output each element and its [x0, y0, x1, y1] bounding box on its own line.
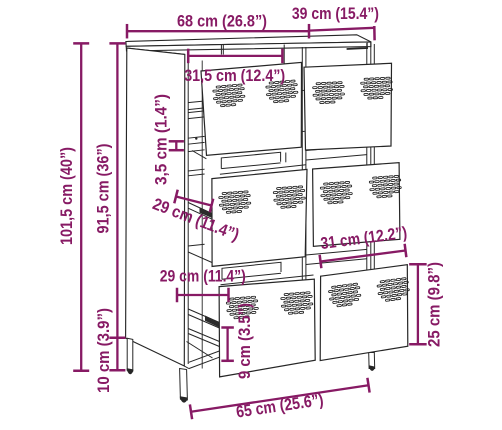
drawer D6 (bottom-right) front: [320, 265, 408, 361]
drawer slide D5 left: [188, 309, 219, 347]
dimension 29 cm drawer depth (angled): [174, 190, 213, 213]
drawer D6 (bottom-right) front left vent cluster: [328, 283, 362, 308]
drawer D2 (top-right) front right vent cluster: [361, 77, 393, 99]
svg-text:3,5 cm (1.4”): 3,5 cm (1.4”): [152, 94, 171, 185]
centre divider bridges: [302, 89, 306, 91]
drawer slide rungs D1 left: [188, 101, 206, 176]
svg-text:31,5 cm (12.4”): 31,5 cm (12.4”): [184, 66, 285, 85]
svg-text:9 cm (3.5”): 9 cm (3.5”): [235, 303, 254, 379]
centre divider: [301, 47, 303, 354]
drawer D4 (middle-right) front left vent cluster: [320, 181, 353, 204]
dimension 31 cm right drawer width: [320, 244, 407, 268]
dimension 91.5 cm body height: [109, 43, 125, 337]
left drawer runner verticals: [201, 61, 203, 369]
dimension 25 cm drawer height: [409, 264, 427, 344]
dimension 39 cm top depth: [309, 26, 375, 40]
drawer D5 (bottom-left) front: [219, 279, 315, 377]
dimension 3.5 cm gap: [169, 141, 184, 150]
front-right leg: [369, 353, 375, 369]
drawer D3 (middle-left) front right vent cluster: [273, 186, 306, 209]
svg-text:68 cm (26.8”): 68 cm (26.8”): [177, 12, 267, 31]
front-left leg: [180, 369, 188, 401]
rail between row2 and row3 left: [221, 262, 314, 285]
dimension 101.5 cm total height: [73, 43, 89, 370]
drawer D1 (top-left) front right vent cluster: [266, 80, 299, 104]
svg-text:101,5 cm (40”): 101,5 cm (40”): [57, 147, 76, 245]
drawer D1 (top-left) front: [201, 62, 302, 155]
drawer D5 (bottom-left) front left vent cluster: [226, 296, 259, 319]
under-top rail marks: [221, 45, 284, 64]
drawer D4 (middle-right) front right vent cluster: [369, 175, 402, 198]
drawer D2 (top-right) front left vent cluster: [313, 82, 345, 104]
cabinet top panel: [126, 35, 371, 51]
drawer D4 (middle-right) front: [313, 163, 400, 247]
svg-text:10 cm (3.9”): 10 cm (3.9”): [94, 308, 113, 393]
dimension 65 cm bottom width: [190, 378, 370, 419]
svg-text:91,5 cm (36”): 91,5 cm (36”): [94, 144, 113, 234]
drawer D2 (top-right) front: [304, 63, 392, 150]
drawer D5 (bottom-left) front right vent cluster: [281, 292, 314, 315]
svg-text:39 cm (15.4”): 39 cm (15.4”): [292, 4, 379, 23]
svg-text:29 cm (11.4”): 29 cm (11.4”): [160, 267, 246, 286]
dimension 31.5 cm drawer width: [188, 49, 282, 64]
left side panel inner edge: [187, 55, 189, 364]
cabinet right side edge: [370, 42, 372, 352]
rail between row1 and row2 left: [220, 152, 306, 174]
drawer D3 (middle-left) front: [212, 169, 307, 266]
back-left leg: [127, 338, 133, 371]
shadow gap under top panel: [347, 48, 368, 49]
dimension 10 cm leg height: [109, 338, 125, 370]
bottom interior left: [184, 342, 222, 369]
left side panel: [126, 48, 185, 366]
dimension 29 cm lower left: [177, 288, 229, 303]
drawer slide D3 left: [188, 203, 212, 263]
drawer D3 (middle-left) front left vent cluster: [219, 191, 252, 214]
top panel right end cap: [366, 43, 368, 49]
dimension 68 cm top width: [127, 24, 309, 39]
drawer D6 (bottom-right) front right vent cluster: [377, 277, 411, 302]
dimension 9 cm: [221, 328, 234, 361]
svg-text:25 cm (9.8”): 25 cm (9.8”): [425, 262, 444, 347]
rail segments right column between rows: [306, 145, 367, 264]
drawer D1 (top-left) front left vent cluster: [213, 84, 246, 108]
